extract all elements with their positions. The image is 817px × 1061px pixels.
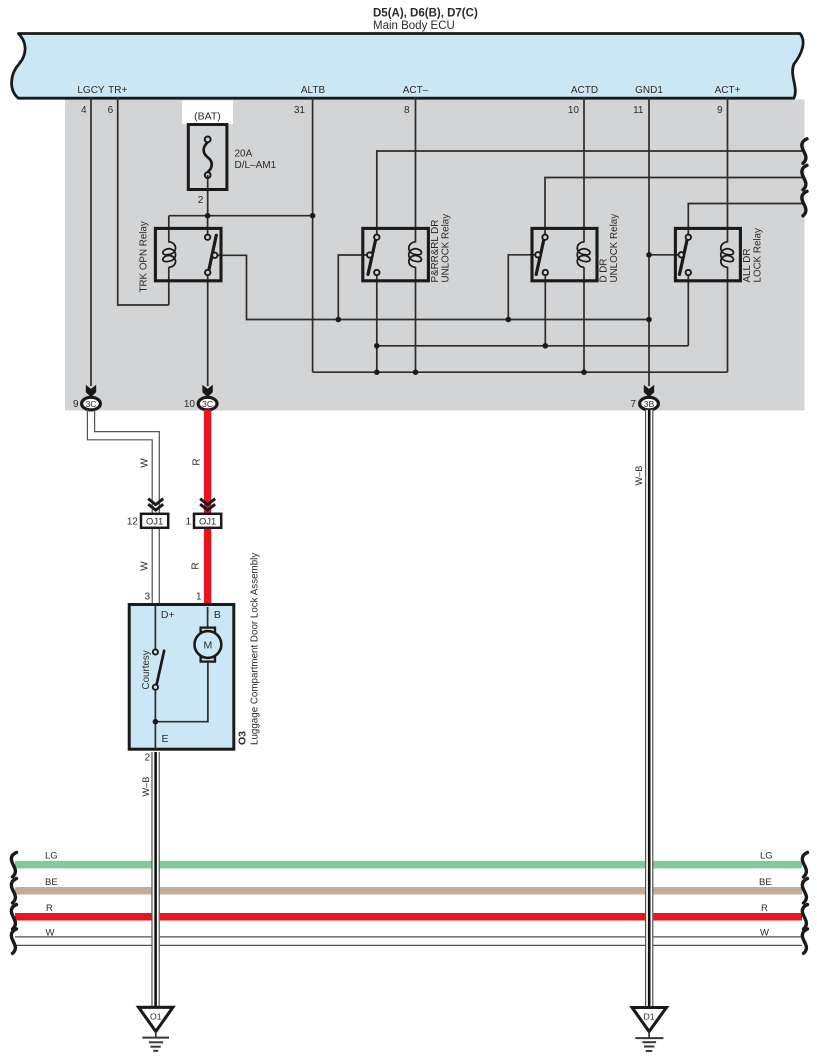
wire P&RR switch top contact up and right to break (377, 151, 805, 235)
relay TRK OPN Relay (155, 228, 221, 280)
motor M (195, 628, 222, 662)
wire fuse output pin2 down to node (207, 175, 209, 216)
svg-text:6: 6 (108, 105, 114, 116)
wire TR+ pin6 down (118, 97, 169, 305)
connector 3C pin 9 (82, 397, 101, 410)
junction fuse/switch node (205, 213, 211, 219)
svg-text:10: 10 (568, 105, 580, 116)
wire break BE left (11, 879, 16, 904)
wire LG horizontal (15, 861, 802, 869)
wire W from OJ1-12 to O3 pin3 (151, 528, 153, 605)
svg-text:M: M (204, 640, 213, 652)
wire break W left (11, 929, 16, 954)
wire motor to E junction (155, 662, 208, 722)
wire R horizontal (15, 913, 802, 921)
connector OJ1 pin 12 (141, 514, 168, 528)
connector chevrons at OJ1-1 (200, 499, 215, 510)
svg-text:ALTB: ALTB (301, 85, 326, 96)
wire P&RR coil bottom to ALTB bus (415, 267, 417, 372)
wire D DR switch top contact up and right to break (545, 178, 805, 236)
wire down to TRK switch top contact (207, 216, 209, 235)
svg-text:3C: 3C (85, 399, 96, 409)
svg-text:D1: D1 (644, 1012, 655, 1022)
svg-text:ACTD: ACTD (571, 85, 598, 96)
junction ALTB bus at D DR coil (581, 369, 587, 375)
junction common bus at P&RR (336, 317, 342, 323)
svg-text:31: 31 (294, 105, 306, 116)
svg-text:P&RR&RL DR: P&RR&RL DR (430, 220, 441, 283)
wire P&RR switch bottom contact down (376, 275, 378, 372)
connector OJ1 pin 1 (194, 514, 221, 528)
wire R from OJ1-1 to O3 pin B (204, 528, 211, 607)
connector arrow into 3C pin 10 (202, 385, 212, 397)
svg-text:UNLOCK Relay: UNLOCK Relay (609, 214, 620, 283)
wire D DR switch bottom contact down to unlock bus (544, 275, 546, 346)
svg-text:3B: 3B (644, 399, 655, 409)
svg-text:8: 8 (404, 105, 410, 116)
svg-text:11: 11 (633, 105, 644, 116)
wire TRK coil bottom to TR+ jog (168, 267, 170, 305)
wire ALL DR switch common to GND1 (649, 254, 679, 256)
wire ALL DR switch bottom contact down to unlock bus (687, 275, 689, 346)
wire W horizontal (15, 937, 802, 946)
connector 3B pin 7 (640, 397, 659, 410)
svg-text:9: 9 (73, 399, 79, 410)
wire ALL DR coil bottom to ALTB bus (727, 267, 729, 372)
junction common bus at GND1 (646, 317, 652, 323)
svg-text:3C: 3C (202, 399, 213, 409)
svg-text:2: 2 (198, 195, 204, 206)
svg-text:ACT–: ACT– (403, 85, 429, 96)
svg-text:Courtesy: Courtesy (141, 650, 152, 689)
svg-text:D/L–AM1: D/L–AM1 (235, 160, 277, 171)
wire R from 3C-10 to OJ1-1 (red) (204, 410, 211, 514)
svg-text:LGCY: LGCY (77, 85, 105, 96)
svg-text:BE: BE (759, 877, 772, 888)
svg-text:W: W (140, 458, 151, 468)
svg-text:O1: O1 (150, 1011, 162, 1021)
svg-text:GND1: GND1 (635, 85, 663, 96)
relay P&RR&RL DR UNLOCK Relay (363, 228, 429, 280)
junction ALTB/fuse node (310, 213, 316, 219)
junction common bus at D DR (506, 317, 512, 323)
svg-text:1: 1 (196, 592, 202, 603)
wire W from 3C-9 to OJ1-12 (white wire, jog right) (87, 410, 159, 605)
wire ALTB pin31 down (312, 97, 314, 372)
fuse label (BAT) (182, 101, 233, 125)
wire P&RR switch common to bus (338, 255, 367, 320)
svg-text:Main Body ECU: Main Body ECU (373, 20, 455, 32)
svg-text:W–B: W–B (634, 466, 644, 486)
wire ALTB along bottom to ALL DR coil (313, 371, 728, 373)
svg-text:TR+: TR+ (108, 85, 127, 96)
component O3 Luggage Compartment Door Lock Assembly (129, 605, 234, 750)
svg-text:12: 12 (127, 517, 139, 528)
svg-text:UNLOCK Relay: UNLOCK Relay (441, 214, 452, 283)
svg-text:LG: LG (45, 851, 58, 862)
svg-text:10: 10 (184, 399, 196, 410)
svg-text:R: R (191, 562, 202, 569)
wire ACTD pin10 down to D DR coil (583, 97, 585, 243)
wire TRK switch bottom contact down to connector 3C-10 (207, 275, 209, 386)
wire down to TRK coil top (168, 216, 170, 243)
junction ALTB bus at P&RR coil (413, 369, 419, 375)
wire break W right (802, 929, 807, 954)
svg-text:4: 4 (81, 105, 87, 116)
wire break LG right (802, 852, 807, 877)
svg-text:R: R (192, 458, 203, 465)
connector arrow into 3B pin 7 (644, 385, 654, 397)
junction at E (153, 719, 159, 725)
wire break symbol right edge y151 (802, 139, 807, 164)
wire W-B from O3 pin2 to ground O1 (152, 752, 160, 1008)
svg-text:3: 3 (144, 592, 150, 603)
wire break BE right (802, 879, 807, 904)
junction unlock bus at P&RR (374, 343, 380, 349)
wire BE horizontal (15, 887, 802, 895)
svg-text:W: W (140, 561, 151, 571)
svg-text:O3: O3 (237, 731, 249, 745)
wire D DR coil bottom to ALTB bus (583, 267, 585, 372)
svg-text:ALL DR: ALL DR (742, 249, 753, 283)
junction unlock bus at D DR (543, 343, 549, 349)
wire LGCY pin4 down to connector 3C-9 (90, 97, 92, 386)
junction GND1 / ALL DR common (646, 252, 652, 258)
wire B to motor (207, 607, 209, 628)
svg-text:Luggage Compartment Door Lock: Luggage Compartment Door Lock Assembly (250, 553, 261, 745)
wire break symbol right edge y203 (802, 191, 807, 216)
svg-text:20A: 20A (235, 149, 253, 160)
wire ALL DR switch top contact up and right to break (688, 204, 805, 236)
wire break R right (802, 905, 807, 930)
junction ALTB bus at P&RR switch (374, 369, 380, 375)
wire courtesy switch to E junction (154, 690, 156, 749)
wire ACT+ pin9 down to ALL DR coil (727, 97, 729, 243)
svg-text:D DR: D DR (599, 259, 610, 283)
svg-text:LG: LG (760, 851, 773, 862)
svg-text:ACT+: ACT+ (715, 85, 741, 96)
ECU internal background block (65, 100, 805, 411)
svg-text:OJ1: OJ1 (146, 516, 163, 527)
svg-text:OJ1: OJ1 (199, 516, 216, 527)
svg-text:LOCK Relay: LOCK Relay (753, 228, 764, 283)
wire break symbol right edge y177 (802, 165, 807, 190)
courtesy switch (153, 649, 164, 689)
wire break R left (11, 905, 16, 930)
wire W-B from 3B-7 to ground D1 (645, 410, 653, 1008)
svg-text:(BAT): (BAT) (194, 111, 221, 123)
svg-text:B: B (214, 609, 221, 621)
svg-text:TRK OPN Relay: TRK OPN Relay (139, 221, 150, 292)
svg-text:W: W (760, 928, 769, 939)
wire D DR switch common to bus (508, 255, 535, 320)
svg-text:E: E (162, 733, 169, 745)
svg-text:BE: BE (45, 877, 58, 888)
ground O1 (139, 1007, 173, 1051)
svg-text:D5(A), D6(B), D7(C): D5(A), D6(B), D7(C) (373, 8, 478, 20)
fuse 20A D/L-AM1 (188, 125, 227, 190)
svg-text:2: 2 (144, 753, 150, 764)
wire D+ to courtesy switch (154, 606, 156, 649)
wire ACT- pin8 down to P&RR coil (415, 97, 417, 243)
svg-text:1: 1 (185, 517, 191, 528)
wire TRK switch common to relay-common bus (218, 255, 650, 319)
wire break LG left (11, 852, 16, 877)
Main Body ECU connector band D5/D6/D7 (12, 34, 804, 99)
wire fuse node horizontal to ALTB (169, 215, 313, 217)
ground D1 (632, 1008, 666, 1052)
svg-text:9: 9 (717, 105, 723, 116)
svg-text:7: 7 (630, 399, 636, 410)
svg-text:W: W (46, 928, 55, 939)
connector 3C pin 10 (198, 397, 217, 410)
svg-text:R: R (46, 903, 53, 914)
svg-text:D+: D+ (161, 609, 175, 621)
wire GND1 pin11 down to connector 3B-7 (648, 97, 650, 386)
wire unlock bus P&RR to ALL DR (377, 345, 689, 347)
relay ALL DR LOCK Relay (675, 228, 740, 280)
connector arrow into 3C pin 9 (86, 385, 96, 397)
svg-text:W–B: W–B (141, 777, 151, 797)
connector chevrons at OJ1-12 (148, 499, 163, 510)
relay D DR UNLOCK Relay (532, 228, 597, 280)
svg-text:R: R (761, 903, 768, 914)
